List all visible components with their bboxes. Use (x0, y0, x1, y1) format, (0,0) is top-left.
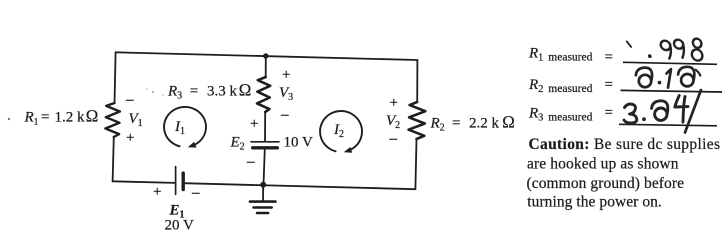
svg-text:=: = (605, 105, 613, 121)
svg-text:–: – (280, 107, 289, 123)
svg-text:+: + (153, 184, 161, 200)
svg-text:=: = (41, 109, 49, 125)
svg-text:+: + (390, 95, 398, 111)
svg-text:–: – (246, 154, 255, 170)
svg-text:20 V: 20 V (165, 218, 194, 234)
svg-text:I2: I2 (333, 122, 344, 140)
svg-text:R3 measured: R3 measured (528, 106, 593, 124)
svg-text:V1: V1 (129, 111, 143, 129)
svg-text:I1: I1 (174, 119, 185, 137)
svg-text:1.2 k: 1.2 k (55, 109, 86, 125)
svg-text:+: + (126, 130, 134, 146)
svg-text:R3: R3 (167, 84, 182, 102)
svg-text:Ω: Ω (502, 113, 515, 132)
svg-text:are hooked up as shown: are hooked up as shown (527, 156, 679, 173)
svg-text:Caution: Be sure dc supplies: Caution: Be sure dc supplies (529, 136, 721, 153)
svg-text:V3: V3 (279, 85, 293, 103)
svg-text:=: = (452, 116, 460, 132)
svg-text:=: = (190, 84, 198, 100)
svg-text:turning the power on.: turning the power on. (527, 193, 662, 210)
svg-text:2.2 k: 2.2 k (469, 116, 500, 132)
svg-text:E2: E2 (230, 135, 245, 153)
svg-text:Ω: Ω (239, 81, 252, 100)
svg-text:Ω: Ω (86, 106, 99, 125)
svg-text:+: + (282, 67, 290, 83)
svg-text:10 V: 10 V (284, 135, 313, 151)
svg-text:+: + (250, 116, 258, 132)
svg-text:R2: R2 (430, 116, 445, 134)
svg-text:–: – (125, 92, 134, 108)
svg-text:(common ground) before: (common ground) before (527, 175, 685, 192)
svg-text:R1 measured: R1 measured (528, 46, 593, 64)
svg-text:=: = (605, 77, 613, 93)
svg-text:R1: R1 (24, 109, 39, 127)
svg-text:3.3 k: 3.3 k (207, 84, 238, 100)
svg-text:V2: V2 (386, 113, 400, 131)
svg-text:=: = (605, 49, 613, 65)
svg-text:–: – (389, 131, 398, 147)
svg-text:R2 measured: R2 measured (528, 77, 593, 95)
svg-text:–: – (191, 185, 200, 201)
